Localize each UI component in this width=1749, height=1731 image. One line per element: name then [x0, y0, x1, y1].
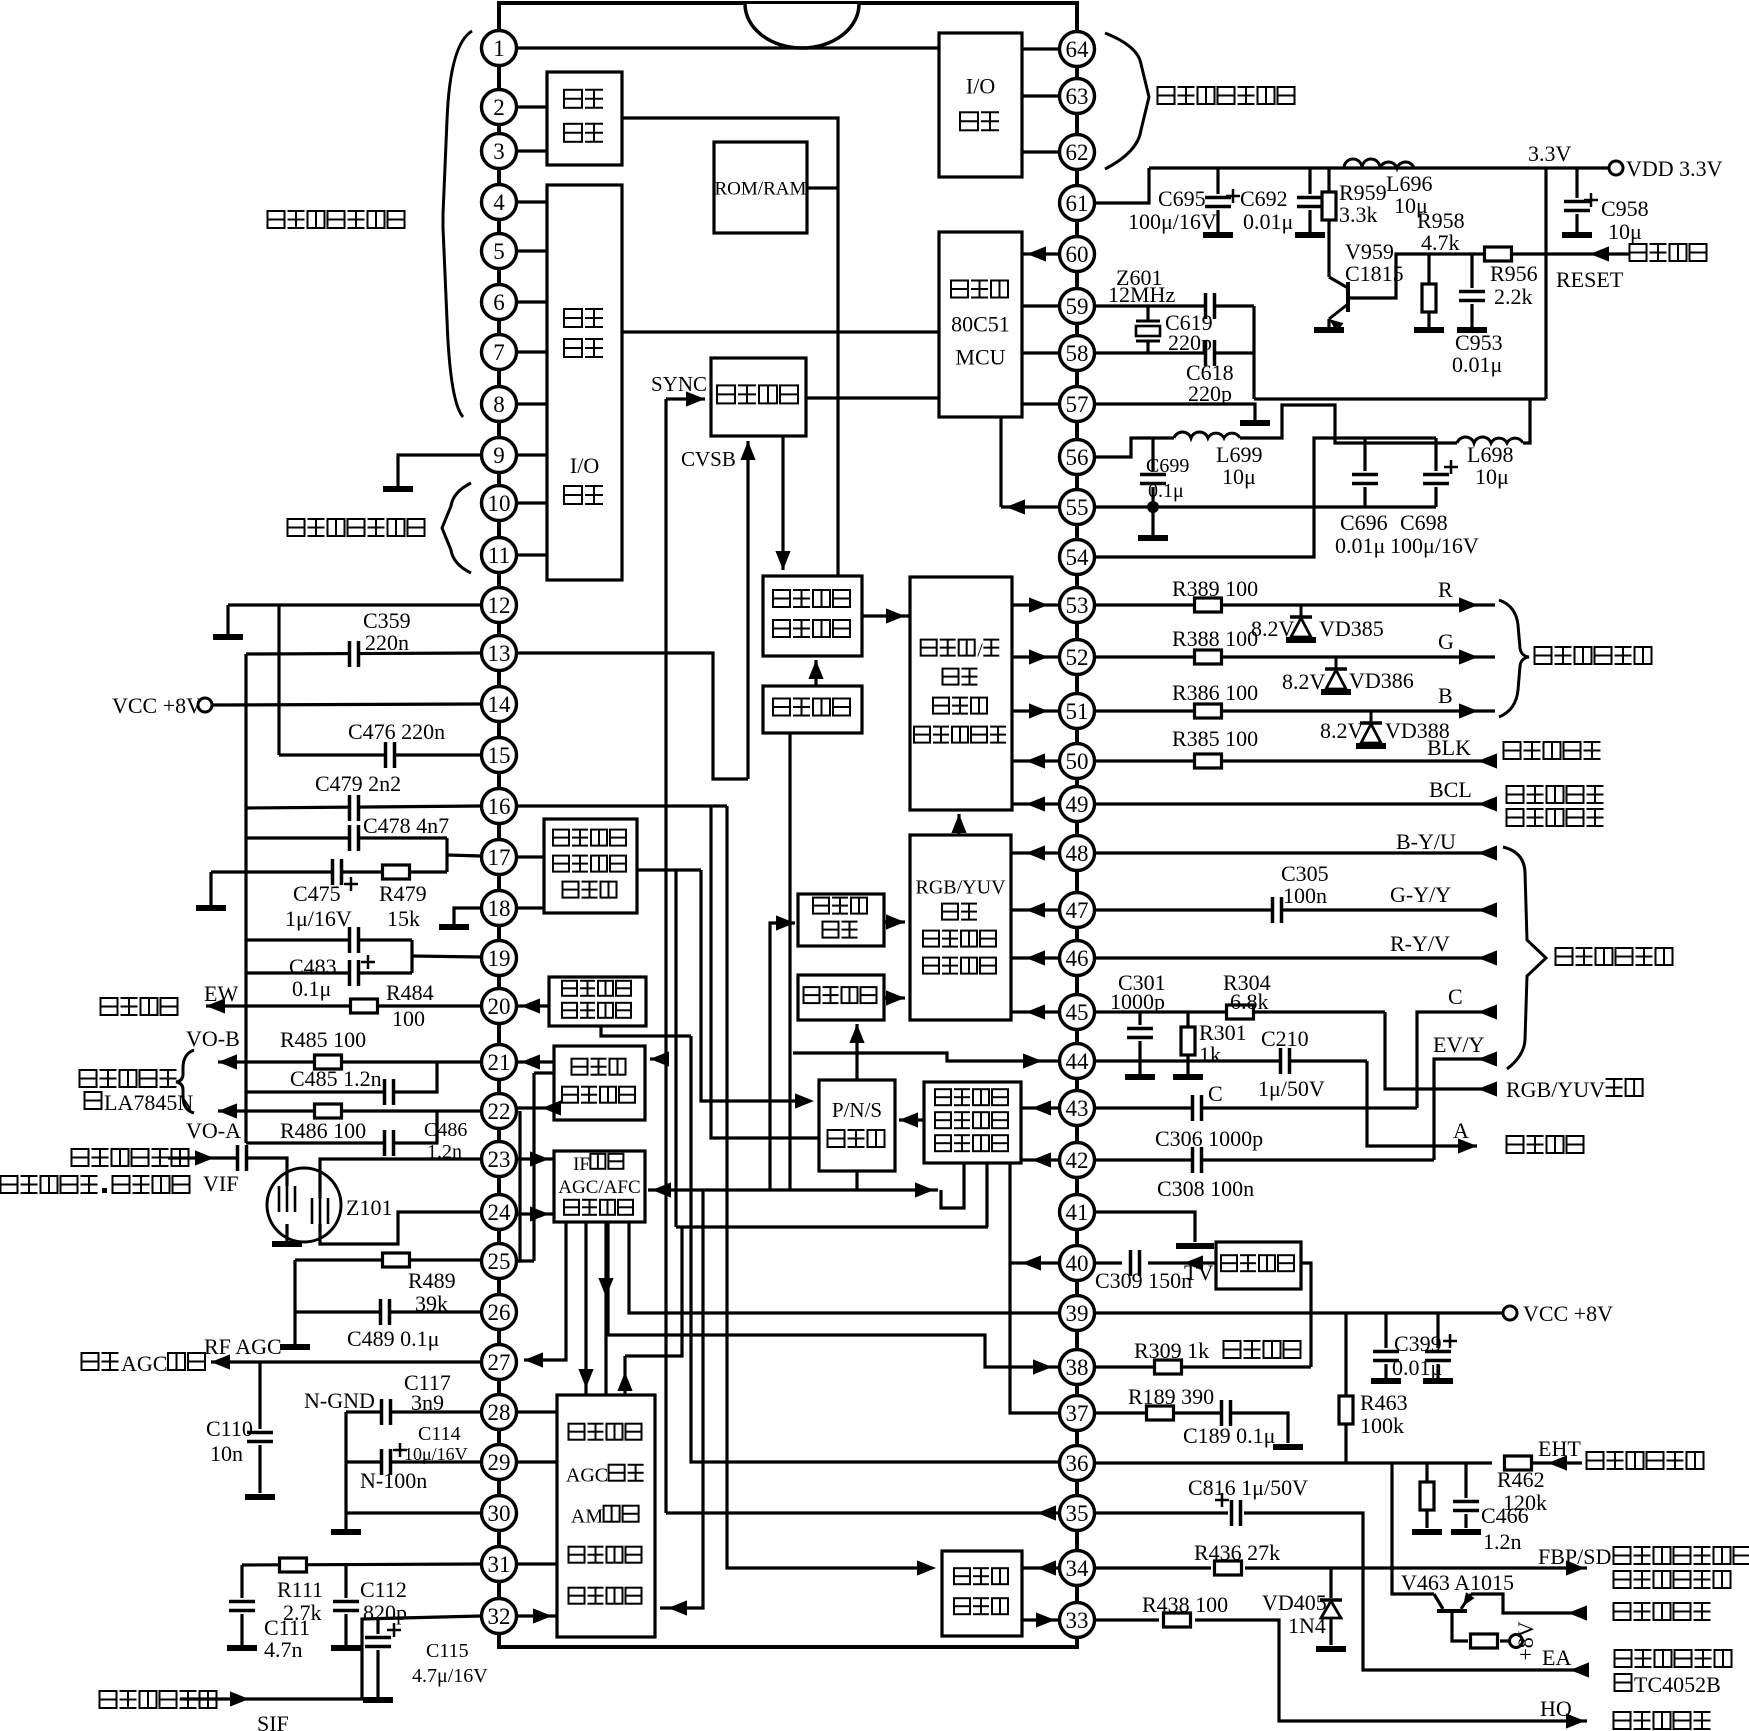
- terminal VCC +8V right: [1503, 1306, 1517, 1320]
- svg-text:54: 54: [1066, 545, 1090, 570]
- capacitor C117: [381, 1399, 392, 1425]
- block baseband delay 基带延迟: [798, 975, 884, 1020]
- wire pin10 to microprocessor block: [516, 501, 547, 504]
- svg-text:EHT: EHT: [1538, 1436, 1581, 1461]
- svg-text:19: 19: [488, 946, 511, 971]
- svg-text:C: C: [1448, 984, 1463, 1009]
- wire R959 lower to V959 collector: [1327, 221, 1330, 277]
- wire x534 stub into vert-drive: [534, 1071, 554, 1074]
- wire bandpass right to pin39 line: [1301, 1263, 1311, 1367]
- wire FBP/SD line: [1245, 1566, 1587, 1569]
- wire C695 branch: [1216, 168, 1219, 194]
- capacitor C696 plates: [1352, 474, 1378, 485]
- wire R463 upper: [1344, 1313, 1347, 1395]
- capacitor C698 polarized plates: [1423, 474, 1449, 485]
- wire pin61 riser: [1094, 168, 1149, 203]
- svg-text:C210: C210: [1261, 1026, 1309, 1051]
- capacitor C489: [380, 1299, 391, 1325]
- wire pin4 to microprocessor block: [516, 200, 547, 203]
- resistor R484: [351, 999, 378, 1013]
- ground R958: [1414, 327, 1444, 333]
- svg-text:4.7μ/16V: 4.7μ/16V: [412, 1665, 488, 1687]
- wire V463 riser from EHT line: [1392, 1463, 1434, 1594]
- svg-text:0.01μ: 0.01μ: [1452, 352, 1502, 377]
- block bandpass filter 带通滤波: [1216, 1242, 1301, 1289]
- diode VD405: [1320, 1598, 1342, 1602]
- wire into pin44 from bus: [793, 1053, 1060, 1061]
- wire pin9 to microprocessor block: [516, 453, 547, 456]
- wire pin57 to MCU: [1022, 402, 1060, 405]
- svg-text:2.2k: 2.2k: [1494, 284, 1533, 309]
- label 复位电压: [1630, 244, 1647, 261]
- svg-text:14: 14: [488, 692, 512, 717]
- pin 38 circle: [1060, 1350, 1095, 1385]
- svg-text:VCC +8V: VCC +8V: [1523, 1301, 1613, 1326]
- block H-drive/H-phase 行激励行相位 text: [954, 1568, 970, 1584]
- wire C466 branch: [1464, 1463, 1467, 1498]
- svg-text:ROM/RAM: ROM/RAM: [715, 179, 807, 200]
- svg-text:C479 2n2: C479 2n2: [315, 771, 401, 796]
- svg-text:G: G: [1438, 629, 1454, 654]
- riser x1546 from rail: [1544, 168, 1547, 399]
- resistor R959: [1322, 192, 1336, 220]
- wire C696 lower: [1363, 487, 1366, 507]
- svg-text:R189 390: R189 390: [1128, 1384, 1214, 1409]
- wire C958 lower: [1575, 214, 1578, 232]
- bus vertical x790 from H/V pulse: [788, 733, 791, 1190]
- wire EW line to pin20: [206, 1004, 481, 1007]
- pin 7 circle: [482, 335, 517, 370]
- pin 22 circle: [482, 1094, 517, 1129]
- wire pin38 line: [1094, 1365, 1311, 1368]
- wire C485 line: [246, 1062, 437, 1092]
- svg-text:VCC +8V: VCC +8V: [112, 693, 202, 718]
- inductor L699: [1174, 432, 1240, 438]
- svg-text:C486: C486: [424, 1119, 467, 1141]
- svg-text:10μ: 10μ: [1608, 219, 1642, 244]
- wire pin32 into sound block: [516, 1614, 557, 1617]
- svg-text:Z101: Z101: [346, 1195, 392, 1220]
- svg-text:49: 49: [1066, 792, 1089, 817]
- capacitor C399a plates: [1373, 1351, 1399, 1362]
- svg-text:33: 33: [1066, 1608, 1089, 1633]
- wire pin34 line right: [1094, 1566, 1211, 1569]
- pin 8 circle: [482, 387, 517, 422]
- capacitor C958 polarized plates: [1564, 201, 1590, 212]
- svg-text:V463 A1015: V463 A1015: [1401, 1570, 1514, 1595]
- wire RF AGC line pin27: [211, 1360, 481, 1363]
- svg-text:C114: C114: [418, 1423, 461, 1445]
- pin 15 circle: [482, 738, 517, 773]
- wire pin47 into RGB block: [1011, 908, 1060, 911]
- block character/brightness/contrast/white-balance 字符入/出亮度对比度白平衡调整 text: [943, 669, 959, 685]
- svg-text:50: 50: [1066, 749, 1089, 774]
- svg-text:25: 25: [488, 1249, 511, 1274]
- block ROM/RAM: [714, 142, 807, 233]
- pin 13 circle: [482, 636, 517, 671]
- svg-text:0.01μ: 0.01μ: [1335, 533, 1385, 558]
- wire character-block to pin53: [1012, 603, 1060, 606]
- pin 60 circle: [1060, 237, 1095, 272]
- pin 57 circle: [1060, 387, 1095, 422]
- svg-text:24: 24: [488, 1200, 512, 1225]
- wire pin53 output line: [1094, 603, 1495, 606]
- svg-text:R-Y/V: R-Y/V: [1390, 931, 1450, 956]
- svg-text:R956: R956: [1490, 261, 1538, 286]
- svg-text:57: 57: [1066, 392, 1089, 417]
- wire R959 upper: [1327, 168, 1330, 191]
- label 基色信号输出: [1535, 647, 1552, 664]
- capacitor C on pin43: [1192, 1095, 1203, 1121]
- rail 3.3V: [1149, 166, 1609, 169]
- capacitor C114 polarized: [381, 1449, 392, 1475]
- label 高压取样输入: [1587, 1452, 1604, 1469]
- wire HO line: [1195, 1620, 1587, 1721]
- svg-text:R386 100: R386 100: [1172, 680, 1258, 705]
- resistor R956: [1485, 247, 1512, 261]
- svg-text:40: 40: [1066, 1251, 1089, 1276]
- crystal Z601: [1136, 320, 1160, 323]
- svg-text:C466: C466: [1481, 1503, 1529, 1528]
- wire bus up-arrow into sound block top: [623, 1356, 626, 1395]
- inductor L696: [1344, 159, 1414, 168]
- wire C476 line pin15: [279, 753, 481, 756]
- pin 44 circle: [1060, 1044, 1095, 1079]
- wire pin58 to MCU: [1022, 351, 1060, 354]
- pin 11 circle: [482, 538, 517, 573]
- svg-text:42: 42: [1066, 1148, 1089, 1173]
- svg-text:48: 48: [1066, 841, 1089, 866]
- wire video-switch to pin43: [1021, 1106, 1060, 1109]
- ground R301: [1173, 1074, 1203, 1080]
- wire pin17 into sync block: [516, 855, 544, 858]
- pin 41 circle: [1060, 1195, 1095, 1230]
- bus vertical x701 to P/N/S input: [701, 870, 809, 1101]
- wire pin55 line right: [1094, 505, 1436, 508]
- svg-text:36: 36: [1066, 1451, 1089, 1476]
- svg-text:1μ/16V: 1μ/16V: [285, 906, 352, 931]
- ground C692: [1295, 232, 1325, 238]
- svg-text:10μ: 10μ: [1222, 464, 1256, 489]
- wire pin46 line: [1094, 956, 1495, 959]
- wire internal vertical pin22-pin25: [516, 1111, 520, 1261]
- wire C110 lower: [258, 1445, 261, 1493]
- wire pin46 into RGB block: [1011, 956, 1060, 959]
- wire C399a lower: [1384, 1364, 1387, 1378]
- wire bandpass to C309: [1148, 1261, 1216, 1264]
- block vertical-drive geometry 场激励几何处理 text: [562, 1087, 578, 1103]
- wire pin16 right to bus corner x727: [516, 804, 727, 807]
- svg-text:TV: TV: [1184, 1260, 1213, 1285]
- pin 6 circle: [482, 285, 517, 320]
- svg-text:R485 100: R485 100: [280, 1027, 366, 1052]
- svg-text:63: 63: [1066, 84, 1089, 109]
- wire C111 branch: [240, 1565, 243, 1598]
- svg-text:C306 1000p: C306 1000p: [1155, 1126, 1263, 1151]
- block microprocessor text 微处: [564, 309, 582, 327]
- label 自定义功能引脚 left-mid: [288, 519, 305, 536]
- block sound-IF/AGC/AM-det/audio 伴音中频AGC放大AM检波音频控制音频输出: [557, 1395, 655, 1637]
- wire C695 lower: [1216, 210, 1219, 232]
- wire join to pin17: [447, 855, 481, 856]
- svg-text:LA7845N: LA7845N: [104, 1090, 193, 1115]
- capacitor C189: [1221, 1400, 1232, 1426]
- svg-text:10μ: 10μ: [1475, 464, 1509, 489]
- label 至LA7845N: [85, 1092, 102, 1109]
- svg-text:220p: 220p: [1168, 330, 1212, 355]
- pin 49 circle: [1060, 787, 1095, 822]
- pin 47 circle: [1060, 893, 1095, 928]
- wire bus x666 to vert-drive input: [650, 1057, 666, 1060]
- wire MCU bottom riser x1001: [999, 417, 1002, 507]
- ground C399a: [1371, 1378, 1401, 1384]
- svg-text:8.2V: 8.2V: [1320, 718, 1364, 743]
- ground C110: [245, 1494, 275, 1500]
- capacitor C309: [1130, 1250, 1141, 1276]
- bus vertical x1010 video-switch to pin37: [1010, 1163, 1060, 1413]
- wire V959 emitter down: [1327, 319, 1330, 327]
- capacitor C695 polarized plates: [1205, 197, 1231, 208]
- svg-text:1μ/50V: 1μ/50V: [1258, 1076, 1325, 1101]
- pin 4 circle: [482, 185, 517, 220]
- wire pin45 into RGB block: [1011, 1010, 1060, 1013]
- label 场保护输入: [1507, 809, 1524, 826]
- wire H-drive to pin33: [1022, 1618, 1060, 1621]
- wire IF-amp down to pin27: [524, 1222, 566, 1360]
- wire C486 line: [246, 1111, 437, 1143]
- svg-text:61: 61: [1066, 191, 1089, 216]
- capacitor C483a: [349, 927, 360, 953]
- svg-text:38: 38: [1066, 1355, 1089, 1380]
- wire C478 line: [246, 836, 447, 839]
- svg-text:C692: C692: [1240, 186, 1288, 211]
- wire EHT input: [1532, 1461, 1582, 1464]
- pin 31 circle: [482, 1547, 517, 1582]
- svg-text:BCL: BCL: [1429, 777, 1472, 802]
- block sound-IF/AGC/AM-det/audio 伴音中频AGC放大AM检波音频控制音频输出 text: [569, 1424, 585, 1440]
- capacitor C111 plates: [229, 1601, 255, 1612]
- pin 56 circle: [1060, 440, 1095, 475]
- svg-text:RGB/YUV: RGB/YUV: [1506, 1077, 1605, 1102]
- wire pin6 to microprocessor block: [516, 300, 547, 303]
- transistor V463 emitter slant with arrow: [1461, 1594, 1471, 1609]
- svg-text:VD385: VD385: [1319, 616, 1384, 641]
- ground R462b: [1412, 1529, 1442, 1535]
- block 80C51 MCU: [939, 232, 1022, 417]
- ground C958: [1562, 232, 1592, 238]
- capacitor C306: [1192, 1147, 1203, 1173]
- wire pin7 to microprocessor block: [516, 350, 547, 353]
- svg-text:R463: R463: [1360, 1390, 1408, 1415]
- wire C483 top line: [246, 938, 412, 941]
- wire C115 lower: [376, 1650, 379, 1697]
- inductor L698: [1457, 437, 1523, 443]
- wire black-level to RGB block: [884, 920, 905, 923]
- svg-text:HO: HO: [1540, 1696, 1572, 1721]
- ground C111: [227, 1645, 257, 1651]
- wire RGB block up to character block: [957, 814, 960, 835]
- SAW filter Z101 body: [267, 1168, 341, 1242]
- pin 16 circle: [482, 789, 517, 824]
- wire C399a branch: [1384, 1313, 1387, 1348]
- svg-text:VD386: VD386: [1349, 668, 1414, 693]
- brace vertical-out: [176, 1050, 194, 1113]
- wire pin40 line: [1094, 1261, 1122, 1264]
- block 80C51 MCU text: [951, 281, 968, 298]
- wire IF-amp down to sound block b: [604, 1222, 607, 1395]
- transistor V959 base bar: [1346, 282, 1350, 312]
- pin 64 circle: [1060, 32, 1095, 67]
- svg-text:TC4052B: TC4052B: [1634, 1672, 1721, 1697]
- arrowhead reset input: [1590, 246, 1609, 261]
- svg-text:56: 56: [1066, 445, 1089, 470]
- svg-text:P/N/S: P/N/S: [832, 1098, 882, 1122]
- pin 46 circle: [1060, 941, 1095, 976]
- block sound-IF/AGC/AM-det/audio 伴音中频AGC放大AM检波音频控制音频输出 text: [569, 1588, 585, 1604]
- svg-text:1N4: 1N4: [1288, 1613, 1326, 1638]
- svg-text:23: 23: [488, 1147, 511, 1172]
- svg-text:C: C: [1208, 1081, 1223, 1106]
- wire character-block to pin52: [1012, 655, 1060, 658]
- wire pin9 to ground: [398, 455, 481, 486]
- svg-text:4.7n: 4.7n: [264, 1637, 303, 1662]
- wire V959 base right: [1348, 254, 1486, 298]
- svg-text:C958: C958: [1601, 196, 1649, 221]
- wire pin48 into RGB block: [1011, 851, 1060, 854]
- wire video-switch bottom riser x987: [985, 1163, 988, 1227]
- wire pin54 path: [1094, 438, 1436, 557]
- resistor R463: [1339, 1396, 1353, 1424]
- svg-text:100μ/16V: 100μ/16V: [1128, 209, 1217, 234]
- svg-text:R436 27k: R436 27k: [1194, 1540, 1280, 1565]
- resistor R479: [383, 865, 410, 879]
- wire pin43 line: [1094, 1106, 1417, 1109]
- capacitor C486: [384, 1130, 395, 1156]
- svg-text:13: 13: [488, 641, 511, 666]
- ground pin57: [1240, 420, 1270, 426]
- wire C399b branch: [1436, 1313, 1439, 1348]
- svg-text:22: 22: [488, 1099, 511, 1124]
- resistor R485: [315, 1055, 342, 1069]
- pin 21 circle: [482, 1045, 517, 1080]
- wire pin35 left line: [666, 1511, 1060, 1514]
- svg-text:8.2V: 8.2V: [1282, 669, 1326, 694]
- svg-text:A: A: [1453, 1118, 1469, 1143]
- block black-level extend 黑电平延伸 text: [813, 898, 829, 914]
- ground C695: [1203, 232, 1233, 238]
- svg-text:43: 43: [1066, 1096, 1089, 1121]
- block black-level extend 黑电平延伸: [798, 894, 884, 946]
- svg-text:C399: C399: [1394, 1331, 1442, 1356]
- svg-text:220p: 220p: [1188, 381, 1232, 406]
- ground C301: [1125, 1074, 1155, 1080]
- wire pin55 line left: [1001, 505, 1060, 508]
- svg-text:8: 8: [493, 392, 505, 417]
- svg-text:RF AGC: RF AGC: [204, 1334, 282, 1359]
- block video switch/ident/filter 视频开关视频识别视频滤波 text: [935, 1089, 951, 1105]
- terminal +8V: [1510, 1635, 1523, 1648]
- block RGB/YUV input matrix 色度调整 text: [923, 958, 939, 974]
- label 伴音中频输入: [100, 1691, 117, 1708]
- wire C117 line pin28: [346, 1410, 481, 1413]
- svg-text:I/O: I/O: [570, 453, 599, 478]
- brace primary-color output: [1499, 600, 1529, 717]
- wire pin25 stub: [516, 1259, 534, 1262]
- svg-text:34: 34: [1066, 1556, 1090, 1581]
- wire C110 branch: [258, 1362, 261, 1429]
- wire IF-amp bottom to pin39 line: [629, 1222, 1060, 1313]
- capacitor C115 polarized: [365, 1637, 391, 1648]
- wire pin5 to microprocessor block: [516, 249, 547, 252]
- IC U1 body outline: [499, 3, 1077, 1647]
- wire R301 branch: [1186, 1012, 1189, 1026]
- block video switch/ident/filter 视频开关视频识别视频滤波 text: [935, 1112, 951, 1128]
- label 黑色流输入: [1504, 742, 1521, 759]
- svg-text:32: 32: [488, 1604, 511, 1629]
- svg-text:1.2n: 1.2n: [1483, 1529, 1522, 1554]
- capacitor C478: [349, 825, 360, 851]
- block character/brightness/contrast/white-balance 字符入/出亮度对比度白平衡调整 text: [933, 698, 949, 714]
- bus vertical x666 SYNC/pin35: [664, 399, 667, 1513]
- resistor R301: [1181, 1027, 1195, 1055]
- wire pin64 to I/O block: [1022, 47, 1060, 50]
- wire R301 lower: [1186, 1056, 1189, 1074]
- pin 43 circle: [1060, 1091, 1095, 1126]
- wire pin56 path: [1094, 438, 1174, 457]
- block teletext-receive 图文接收 text: [717, 385, 735, 403]
- svg-text:2: 2: [493, 95, 505, 120]
- svg-text:0.1μ: 0.1μ: [1148, 480, 1184, 502]
- wire long bus line with two arrows: [648, 1188, 938, 1191]
- bus vertical x769 to black-level input: [770, 923, 795, 1190]
- svg-text:35: 35: [1066, 1501, 1089, 1526]
- pin 12 circle: [482, 588, 517, 623]
- wire sync-block output to bus corner x701: [637, 868, 701, 871]
- capacitor C359: [349, 641, 360, 667]
- capacitor VIF coupling: [237, 1145, 248, 1171]
- wire pin24 into IF-amp: [516, 1212, 554, 1215]
- svg-text:10: 10: [488, 491, 511, 516]
- svg-text:B: B: [1438, 683, 1453, 708]
- pin 50 circle: [1060, 744, 1095, 779]
- ground VD405: [1316, 1646, 1346, 1652]
- capacitor C479: [349, 795, 360, 821]
- block sound-IF/AGC/AM-det/audio 伴音中频AGC放大AM检波音频控制音频输出 text: [569, 1547, 585, 1563]
- svg-text:MCU: MCU: [955, 345, 1005, 370]
- wire video-switch to P/N/S: [899, 1118, 924, 1121]
- svg-text:EV/Y: EV/Y: [1433, 1032, 1484, 1057]
- svg-text:58: 58: [1066, 341, 1089, 366]
- resistor R489: [383, 1253, 410, 1267]
- wire N-GND vertical: [344, 1412, 347, 1529]
- brace custom-function pins 10-11: [442, 483, 471, 573]
- brace custom-function pins 1-8: [443, 31, 472, 417]
- svg-text:11: 11: [488, 543, 510, 568]
- wire pin60 to MCU with arrow: [1022, 252, 1060, 255]
- svg-text:EW: EW: [204, 981, 238, 1006]
- wire R486 line pin22: [218, 1109, 481, 1112]
- wire pin52 output line: [1094, 655, 1495, 658]
- block teletext-receive 图文接收: [711, 358, 806, 436]
- wire C475 ground stem: [209, 872, 212, 905]
- svg-text:+8V: +8V: [1513, 1621, 1538, 1660]
- label 接TC4052B: [1615, 1674, 1632, 1691]
- svg-text:3: 3: [493, 139, 505, 164]
- pin 34 circle: [1060, 1551, 1095, 1586]
- svg-text:C485 1.2n: C485 1.2n: [290, 1066, 382, 1091]
- transistor V463 base bar: [1437, 1609, 1467, 1613]
- svg-text:53: 53: [1066, 593, 1089, 618]
